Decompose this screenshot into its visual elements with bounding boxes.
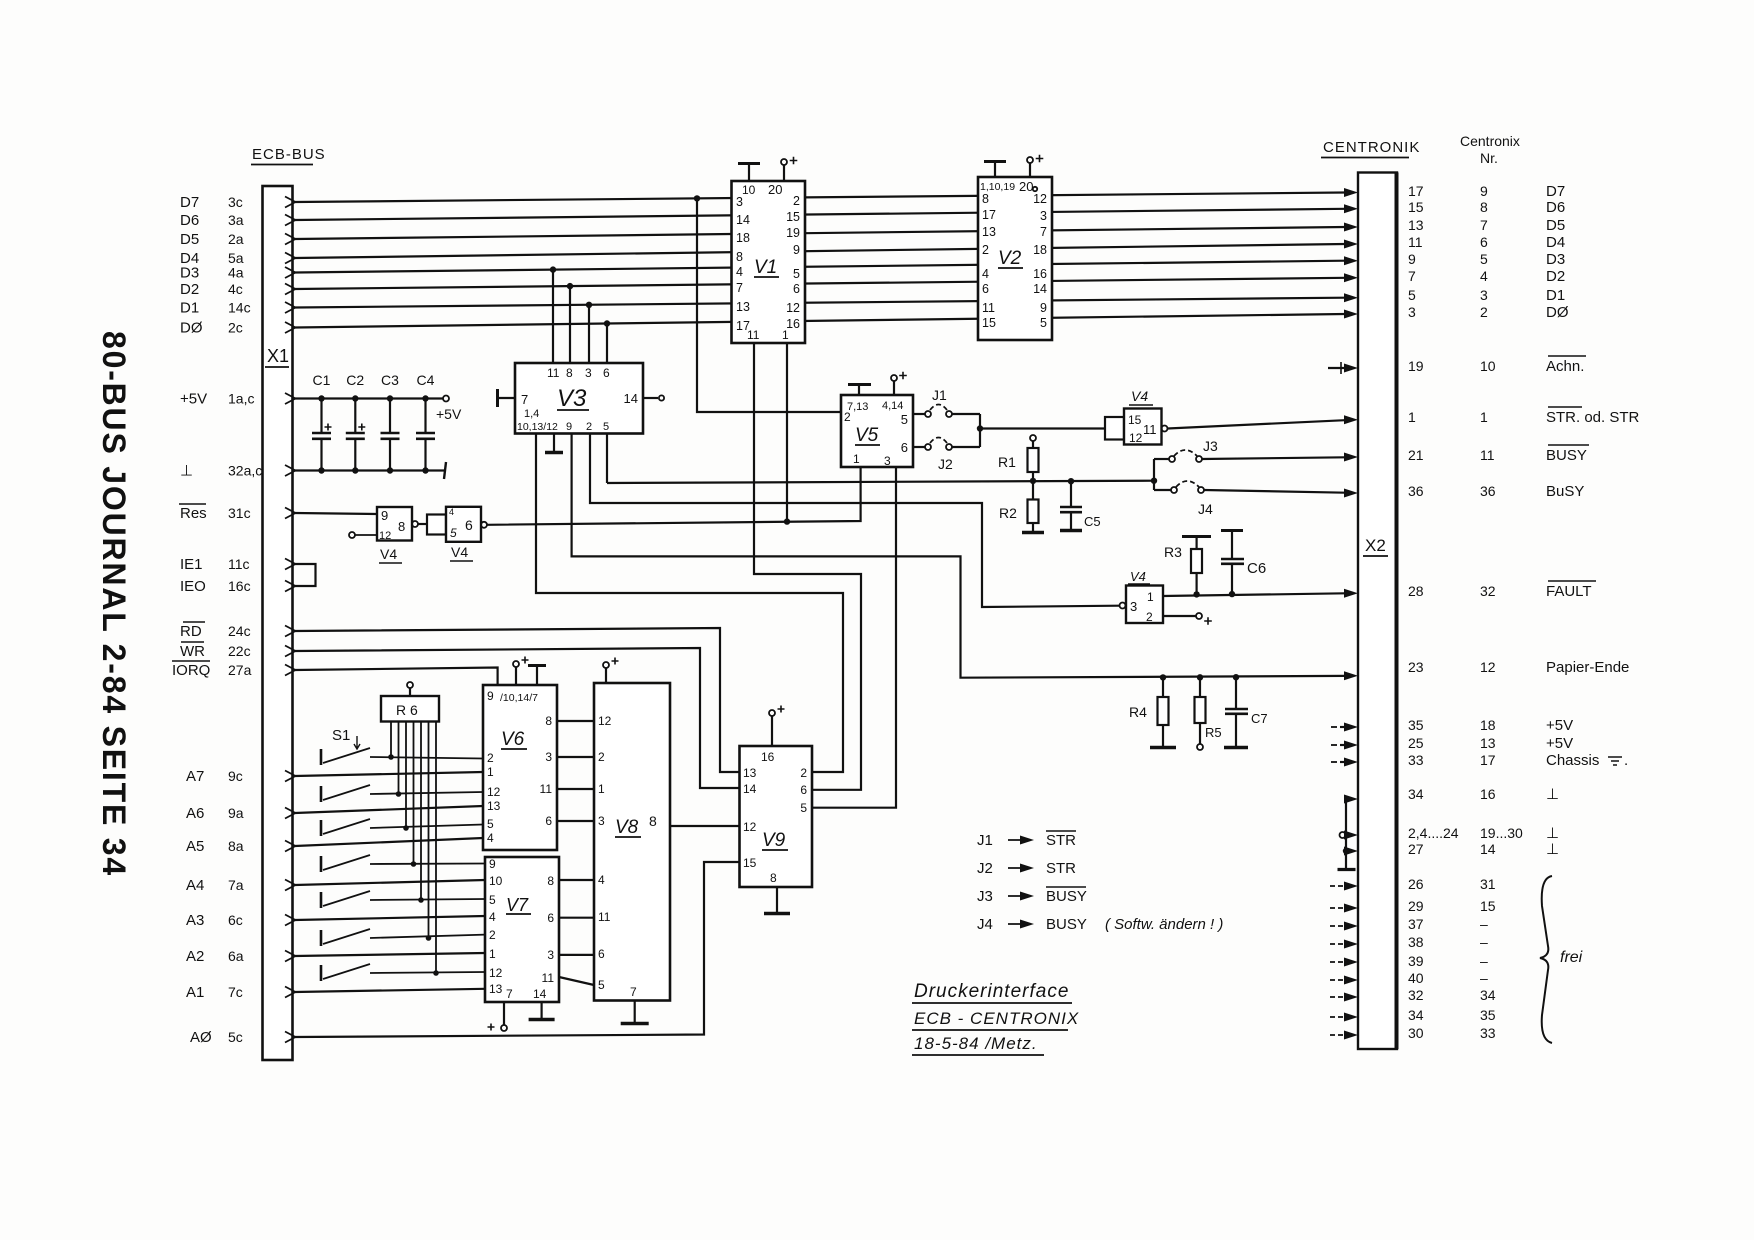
svg-text:12: 12 — [1480, 659, 1496, 675]
svg-text:9c: 9c — [228, 768, 243, 784]
svg-text:+5V: +5V — [1546, 735, 1573, 752]
svg-text:10,13/12: 10,13/12 — [517, 421, 558, 433]
svg-text:1: 1 — [598, 782, 605, 796]
svg-text:7c: 7c — [228, 984, 243, 1000]
svg-text:D3: D3 — [180, 265, 199, 282]
svg-text:17: 17 — [982, 208, 996, 222]
svg-text:37: 37 — [1408, 916, 1424, 932]
svg-text:15: 15 — [1480, 898, 1496, 914]
wire data bus D2 from X1 to X2 — [295, 278, 1345, 289]
svg-text:7: 7 — [1040, 225, 1047, 239]
ground at V3 pin 7 — [498, 397, 515, 399]
svg-text:D6: D6 — [1546, 199, 1565, 216]
svg-text:BUSY: BUSY — [1046, 888, 1087, 905]
svg-text:12: 12 — [487, 785, 501, 799]
svg-text:V7: V7 — [506, 895, 529, 915]
wire address A6 — [295, 806, 483, 813]
svg-text:4c: 4c — [228, 281, 243, 297]
svg-text:8: 8 — [547, 874, 554, 888]
svg-text:D7: D7 — [180, 194, 199, 211]
svg-text:32: 32 — [1480, 583, 1496, 599]
svg-text:9a: 9a — [228, 805, 244, 821]
svg-text:1: 1 — [489, 947, 496, 961]
node fault gate pin2 +5V — [1163, 615, 1196, 617]
svg-text:5: 5 — [489, 893, 496, 907]
svg-text:D4: D4 — [1546, 234, 1565, 251]
svg-text:5: 5 — [603, 421, 609, 433]
svg-text:3: 3 — [884, 454, 891, 468]
wire V3 pin 9 to X2 Papier-Ende — [572, 434, 1345, 678]
ground at V2 pins 1,10,19 — [994, 162, 996, 177]
svg-text:1: 1 — [853, 452, 860, 466]
svg-text:R5: R5 — [1205, 725, 1222, 740]
svg-text:12: 12 — [598, 714, 612, 728]
svg-text:V4: V4 — [380, 546, 397, 562]
switch S1 pole 3 — [320, 820, 323, 836]
connector X1 (ECB bus) — [263, 186, 293, 1060]
wire +5V rail from X1 pin 1a,c — [295, 397, 443, 399]
svg-text:AØ: AØ — [190, 1029, 212, 1046]
svg-text:2: 2 — [793, 194, 800, 208]
ground at V5 pins 7,13 — [858, 385, 860, 395]
svg-text:8: 8 — [770, 871, 777, 885]
svg-text:9: 9 — [566, 421, 572, 433]
svg-text:V4: V4 — [1130, 569, 1146, 584]
wire frei stub — [1330, 943, 1347, 945]
svg-text:D6: D6 — [180, 212, 199, 229]
wire frei stub — [1330, 961, 1347, 963]
IC V2 bus driver — [978, 177, 1052, 340]
svg-text:29: 29 — [1408, 898, 1424, 914]
svg-text:A5: A5 — [186, 838, 204, 855]
wire R6 pull-up — [428, 722, 430, 939]
svg-text:6: 6 — [598, 947, 605, 961]
svg-text:D2: D2 — [1546, 268, 1565, 285]
wire address A2 — [295, 953, 485, 956]
+5V at V9 pin 16 — [771, 716, 773, 746]
svg-text:1,4: 1,4 — [524, 408, 539, 420]
svg-text:13: 13 — [982, 225, 996, 239]
svg-text:5: 5 — [901, 412, 908, 427]
svg-text:3: 3 — [545, 750, 552, 764]
svg-text:Achn.: Achn. — [1546, 358, 1584, 375]
svg-text:13: 13 — [489, 982, 503, 996]
svg-text:5: 5 — [1040, 316, 1047, 330]
wire frei stub — [1330, 996, 1347, 998]
svg-text:33: 33 — [1480, 1025, 1496, 1041]
wire R6 pull-up — [413, 722, 415, 865]
svg-text:11: 11 — [598, 910, 611, 924]
svg-text:A3: A3 — [186, 912, 204, 929]
+5V at V5 pins 4,14 — [893, 381, 895, 395]
svg-text:Chassis: Chassis — [1546, 752, 1599, 769]
inverter V4a (reset) — [377, 507, 412, 541]
svg-text:3a: 3a — [228, 212, 244, 228]
wire strobe tee to J3/J4 — [1153, 459, 1155, 490]
+5V at V2 pin 20 — [1029, 163, 1031, 177]
svg-text:6a: 6a — [228, 948, 244, 964]
svg-text:9: 9 — [1480, 183, 1488, 199]
svg-text:1a,c: 1a,c — [228, 391, 254, 407]
wire J3 to X2 pin 21 — [1202, 457, 1345, 459]
svg-text:4: 4 — [489, 910, 496, 924]
resistor R5 — [1199, 677, 1201, 697]
ground at V9 pin 8 — [776, 887, 778, 912]
resistor R3 — [1182, 535, 1211, 538]
wire V3 pin 10,13/12 to V9 pin 2 — [536, 434, 843, 773]
svg-text:11: 11 — [747, 328, 760, 342]
svg-text:24c: 24c — [228, 623, 251, 639]
svg-text:7: 7 — [1480, 217, 1488, 233]
svg-text:C3: C3 — [381, 372, 399, 388]
svg-text:3: 3 — [1130, 599, 1137, 614]
svg-text:3: 3 — [585, 366, 592, 380]
ground bracket to X2 pins 34/2,4..24/27 — [1345, 799, 1347, 868]
svg-text:32a,c: 32a,c — [228, 463, 262, 479]
svg-text:D2: D2 — [180, 281, 199, 298]
svg-text:–: – — [1480, 953, 1488, 969]
svg-text:A6: A6 — [186, 805, 204, 822]
svg-text:V3: V3 — [557, 385, 587, 412]
wire Ackn stub — [1328, 367, 1346, 369]
svg-text:22c: 22c — [228, 643, 251, 659]
IC V6 comparator — [483, 685, 557, 850]
svg-text:Papier-Ende: Papier-Ende — [1546, 659, 1629, 676]
svg-text:CENTRONIK: CENTRONIK — [1323, 139, 1420, 156]
svg-text:9: 9 — [489, 857, 496, 871]
svg-text:13: 13 — [1480, 735, 1496, 751]
svg-text:13: 13 — [743, 766, 757, 780]
wire V1 pin 1 to RES net — [786, 343, 788, 522]
wire R6 pull-up — [398, 722, 400, 795]
svg-text:8: 8 — [982, 192, 989, 206]
svg-text:15: 15 — [1128, 413, 1142, 427]
svg-text:BUSY: BUSY — [1546, 447, 1587, 464]
svg-text:11: 11 — [982, 301, 995, 315]
connector X2 (Centronics) — [1358, 173, 1397, 1050]
svg-text:A7: A7 — [186, 768, 204, 785]
svg-text:8: 8 — [398, 519, 405, 534]
wire V1 pin 11 to V9 pin 6 — [754, 343, 861, 790]
wire data bus D4 from X1 to X2 — [295, 244, 1345, 258]
IC V3 gate pack — [515, 363, 643, 434]
svg-text:R4: R4 — [1129, 704, 1147, 720]
svg-text:V6: V6 — [501, 729, 525, 750]
resistor R2 — [1032, 481, 1034, 500]
svg-text:–: – — [1480, 970, 1488, 986]
svg-text:R 6: R 6 — [396, 702, 418, 718]
svg-text:35: 35 — [1408, 717, 1424, 733]
svg-text:14c: 14c — [228, 300, 251, 316]
svg-text:Druckerinterface: Druckerinterface — [914, 981, 1069, 1002]
svg-text:11: 11 — [542, 971, 555, 985]
svg-text:+5V: +5V — [180, 391, 207, 408]
svg-text:6: 6 — [982, 282, 989, 296]
svg-text:X2: X2 — [1365, 536, 1386, 555]
svg-text:C7: C7 — [1251, 711, 1268, 726]
ground stub below V3 — [553, 434, 555, 453]
wire frei stub — [1330, 1034, 1347, 1036]
svg-text:36: 36 — [1480, 483, 1496, 499]
wire data bus D7 from X1 to X2 — [295, 193, 1345, 203]
brace frei — [1540, 876, 1552, 1043]
svg-text:4: 4 — [982, 267, 989, 281]
wire V4a out to V4b — [418, 523, 427, 525]
svg-text:V4: V4 — [1131, 388, 1148, 404]
svg-text:39: 39 — [1408, 953, 1424, 969]
svg-text:16c: 16c — [228, 578, 251, 594]
wire address A3 — [295, 916, 485, 920]
svg-text:16: 16 — [761, 750, 775, 764]
svg-text:2: 2 — [586, 421, 592, 433]
wire R6 pull-up — [390, 722, 392, 758]
wire R6 pull-up — [405, 722, 407, 829]
svg-text:17: 17 — [1480, 752, 1496, 768]
wire R6 pull-up — [420, 722, 422, 901]
svg-text:DØ: DØ — [1546, 304, 1569, 321]
wire frei stub — [1330, 1016, 1347, 1018]
svg-text:2c: 2c — [228, 320, 243, 336]
svg-text:5: 5 — [793, 267, 800, 281]
svg-text:80-BUS JOURNAL 2-84 SEITE 34: 80-BUS JOURNAL 2-84 SEITE 34 — [96, 331, 132, 877]
wire address A1 — [295, 989, 485, 992]
svg-text:5: 5 — [1480, 251, 1488, 267]
svg-text:2,4....24: 2,4....24 — [1408, 825, 1459, 841]
svg-text:15: 15 — [982, 316, 996, 330]
svg-text:4,14: 4,14 — [882, 400, 903, 412]
wire frei stub — [1330, 907, 1347, 909]
svg-text:.: . — [1624, 752, 1628, 769]
svg-text:C6: C6 — [1247, 560, 1266, 577]
resistor R1 — [1030, 435, 1036, 441]
svg-text:12: 12 — [379, 530, 391, 542]
svg-text:6c: 6c — [228, 912, 243, 928]
svg-text:R2: R2 — [999, 505, 1017, 521]
svg-text:WR: WR — [180, 643, 205, 660]
wire +5V/chassis stub — [1331, 744, 1337, 746]
wire ground rail from X1 pin 32a,c — [295, 469, 444, 471]
svg-text:34: 34 — [1408, 1007, 1424, 1023]
wire J1/J2 outputs to V4 strobe gate — [952, 413, 980, 415]
svg-text:2: 2 — [489, 928, 496, 942]
wire data bus D3 from X1 to X2 — [295, 261, 1345, 273]
wire tap D7 to V5 pin 2 — [697, 198, 841, 412]
wire J4 to X2 pin 36 — [1204, 490, 1345, 493]
svg-text:8: 8 — [1480, 199, 1488, 215]
svg-text:2: 2 — [1480, 304, 1488, 320]
svg-text:RD: RD — [180, 623, 202, 640]
svg-text:23: 23 — [1408, 659, 1424, 675]
svg-text:18: 18 — [1480, 717, 1496, 733]
svg-text:8: 8 — [736, 250, 743, 264]
IC V7 comparator — [485, 857, 559, 1002]
ground at V1 pin 10 — [748, 164, 750, 181]
svg-text:C2: C2 — [346, 372, 364, 388]
svg-text:A4: A4 — [186, 877, 204, 894]
wire frei stub — [1330, 885, 1347, 887]
wire fault gate pin1 to X2 pin 28 — [1163, 593, 1345, 596]
svg-text:STR. od. STR: STR. od. STR — [1546, 409, 1640, 426]
svg-text:3: 3 — [598, 814, 605, 828]
ground at V6 — [536, 666, 538, 685]
svg-text:V2: V2 — [998, 248, 1022, 269]
svg-text:( Softw. ändern ! ): ( Softw. ändern ! ) — [1105, 916, 1223, 933]
svg-text:J3: J3 — [1203, 438, 1218, 454]
svg-text:36: 36 — [1408, 483, 1424, 499]
svg-text:5: 5 — [487, 817, 494, 831]
svg-text:14: 14 — [736, 213, 750, 227]
svg-text:+5V: +5V — [436, 406, 462, 422]
svg-text:IE1: IE1 — [180, 556, 203, 573]
svg-text:10: 10 — [1480, 358, 1496, 374]
+5V at V8 — [605, 668, 607, 683]
svg-text:frei: frei — [1560, 949, 1583, 966]
svg-text:26: 26 — [1408, 876, 1424, 892]
wire +5V/chassis stub — [1331, 726, 1337, 728]
wire tap D1 to V3 pin 3 — [588, 305, 590, 363]
svg-text:V4: V4 — [451, 544, 468, 560]
svg-text:11: 11 — [547, 366, 560, 380]
svg-text:4: 4 — [487, 831, 494, 845]
capacitor C6 — [1221, 529, 1243, 532]
svg-text:6: 6 — [901, 440, 908, 455]
capacitor C1 — [320, 399, 322, 434]
resistor R4 — [1162, 677, 1164, 697]
node input pin12 V4a — [349, 532, 355, 538]
svg-text:16: 16 — [1480, 786, 1496, 802]
svg-text:J2: J2 — [977, 860, 993, 877]
svg-text:4: 4 — [598, 873, 605, 887]
svg-text:3: 3 — [1480, 287, 1488, 303]
svg-text:10: 10 — [489, 874, 503, 888]
svg-text:15: 15 — [786, 210, 800, 224]
svg-text:34: 34 — [1408, 786, 1424, 802]
wire data bus D0 from X1 to X2 — [295, 314, 1345, 328]
svg-text:A1: A1 — [186, 984, 204, 1001]
svg-text:⊥: ⊥ — [1546, 841, 1559, 858]
svg-text:+5V: +5V — [1546, 717, 1573, 734]
svg-text:7: 7 — [521, 392, 528, 407]
svg-text:19: 19 — [1408, 358, 1424, 374]
wire RD to V9 pin 13 — [295, 628, 740, 772]
svg-text:ECB-BUS: ECB-BUS — [252, 146, 326, 163]
svg-text:3: 3 — [1408, 304, 1416, 320]
svg-text:27: 27 — [1408, 841, 1424, 857]
svg-text:6: 6 — [603, 366, 610, 380]
svg-text:3c: 3c — [228, 194, 243, 210]
svg-text:21: 21 — [1408, 447, 1424, 463]
svg-text:20: 20 — [768, 182, 782, 197]
wires V7 to V8 — [559, 879, 594, 881]
capacitor C4 — [424, 399, 426, 434]
svg-text:J1: J1 — [932, 387, 947, 403]
IC V5 flip-flop — [841, 395, 913, 467]
svg-text:R3: R3 — [1164, 544, 1182, 560]
wire address A7 — [295, 772, 483, 776]
svg-text:C5: C5 — [1084, 514, 1101, 529]
svg-text:11: 11 — [1480, 447, 1495, 463]
svg-text:9: 9 — [1408, 251, 1416, 267]
svg-text:3: 3 — [736, 195, 743, 209]
wire frei stub — [1330, 979, 1347, 981]
svg-text:BUSY: BUSY — [1046, 916, 1087, 933]
svg-text:8: 8 — [545, 714, 552, 728]
svg-text:12: 12 — [743, 820, 757, 834]
svg-text:4: 4 — [449, 507, 454, 517]
svg-text:2: 2 — [1146, 610, 1153, 624]
svg-text:13: 13 — [1408, 217, 1424, 233]
svg-text:30: 30 — [1408, 1025, 1424, 1041]
svg-text:IEO: IEO — [180, 578, 206, 595]
svg-text:V5: V5 — [855, 425, 879, 446]
svg-text:4: 4 — [736, 265, 743, 279]
wires V6 to V8 — [557, 720, 594, 722]
wire data bus D1 from X1 to X2 — [295, 298, 1345, 308]
svg-text:V9: V9 — [762, 830, 786, 851]
svg-text:STR: STR — [1046, 860, 1076, 877]
svg-text:D1: D1 — [180, 300, 199, 317]
svg-text:5: 5 — [598, 978, 605, 992]
wire +5V/chassis stub — [1331, 761, 1337, 763]
inverter V4 fault — [1126, 586, 1163, 624]
svg-text:BuSY: BuSY — [1546, 483, 1584, 500]
capacitor C2 — [354, 399, 356, 434]
svg-text:FAULT: FAULT — [1546, 583, 1592, 600]
svg-text:2: 2 — [800, 766, 807, 780]
svg-text:1: 1 — [1408, 409, 1416, 425]
svg-text:2: 2 — [487, 751, 494, 765]
svg-text:S1: S1 — [332, 727, 350, 744]
svg-text:2: 2 — [844, 410, 851, 424]
svg-text:34: 34 — [1480, 987, 1496, 1003]
svg-text:7: 7 — [736, 281, 743, 295]
svg-text:9: 9 — [1040, 301, 1047, 315]
svg-text:17: 17 — [1408, 183, 1424, 199]
ground at V8 pin 7 — [634, 1001, 636, 1023]
svg-text:IORQ: IORQ — [172, 662, 210, 679]
svg-text:D5: D5 — [180, 231, 199, 248]
wire V5 pin 3 to V9 pin 5 — [812, 467, 896, 808]
wire R6 pull-up — [435, 722, 437, 974]
svg-text:12: 12 — [1129, 431, 1143, 445]
svg-text:D3: D3 — [1546, 251, 1565, 268]
svg-text:35: 35 — [1480, 1007, 1496, 1023]
svg-text:12: 12 — [1033, 192, 1047, 206]
jumper J1 — [913, 413, 925, 415]
svg-text:X1: X1 — [267, 346, 289, 366]
svg-text:15: 15 — [743, 856, 757, 870]
svg-text:9: 9 — [793, 243, 800, 257]
svg-text:7: 7 — [1408, 268, 1416, 284]
svg-text:38: 38 — [1408, 934, 1424, 950]
ground at V7 pin 14 — [540, 1002, 542, 1018]
wire frei stub — [1330, 925, 1347, 927]
svg-text:11: 11 — [540, 782, 553, 796]
wire WR to V9 pin 14 — [295, 648, 740, 788]
capacitor C7 — [1235, 677, 1237, 709]
wire V3 pin 5 strobe line to J3/J4 tee — [606, 434, 608, 484]
svg-text:1: 1 — [487, 765, 494, 779]
svg-text:13: 13 — [487, 799, 501, 813]
svg-text:J4: J4 — [1198, 501, 1213, 517]
capacitor C5 — [1070, 481, 1072, 507]
svg-text:11: 11 — [1143, 422, 1157, 437]
svg-text:6: 6 — [800, 783, 807, 797]
svg-text:27a: 27a — [228, 662, 252, 678]
inverter V4b (reset) — [427, 515, 446, 535]
svg-text:5: 5 — [800, 801, 807, 815]
svg-text:A2: A2 — [186, 948, 204, 965]
